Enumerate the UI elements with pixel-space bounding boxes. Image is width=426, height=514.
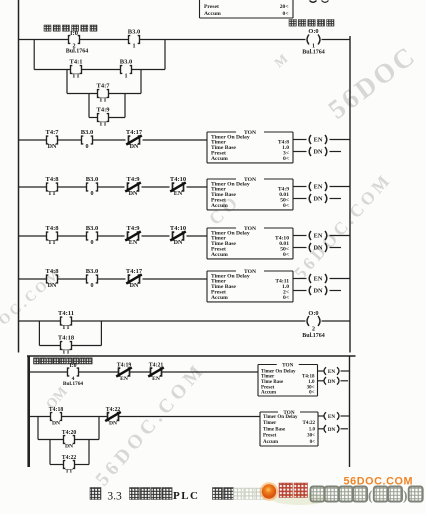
svg-text:Accum: Accum	[204, 11, 221, 17]
coil T4:11/DN	[293, 286, 341, 295]
label 由东向西方向传感器 (rung comment)	[34, 358, 93, 364]
timer block TON T4:11	[207, 269, 293, 302]
svg-text:EN: EN	[314, 233, 323, 240]
svg-text:DN: DN	[174, 240, 183, 246]
timer block TON T4:9	[207, 177, 293, 210]
contact T4:18/TT (XIC)	[58, 334, 75, 355]
contact T4:20/DN (XIC)	[62, 430, 77, 450]
svg-text:T4:22: T4:22	[62, 455, 77, 461]
svg-text:): )	[403, 488, 408, 503]
coil T4:8/EN	[293, 135, 350, 144]
svg-text:Bul.1764: Bul.1764	[66, 49, 89, 55]
svg-text:I:0: I:0	[70, 30, 78, 37]
pin label Bul.1764 for I:0	[66, 49, 89, 55]
svg-text:30<: 30<	[307, 434, 315, 439]
svg-text:EN: EN	[174, 191, 183, 197]
wire rung 4	[19, 235, 208, 237]
svg-text:Bul.1764: Bul.1764	[63, 381, 84, 387]
contact B3.0/0 (XIC)	[81, 129, 93, 150]
svg-text:T4:10: T4:10	[170, 225, 186, 232]
svg-text:B3.0: B3.0	[86, 268, 98, 275]
svg-text:B3.0: B3.0	[86, 225, 98, 232]
contact T4:21/EN (XIO)	[148, 362, 164, 382]
timer block TON T4:18	[258, 363, 318, 396]
wire parallel branch 2 (bottom rung 2)	[50, 440, 89, 465]
svg-text:0<: 0<	[309, 390, 315, 395]
svg-text:T4:20: T4:20	[62, 430, 77, 436]
svg-text:56DOC.COM: 56DOC.COM	[0, 265, 66, 351]
svg-text:Bul.1764: Bul.1764	[302, 50, 325, 56]
svg-text:0<: 0<	[310, 440, 316, 445]
svg-text:1.0: 1.0	[309, 428, 316, 433]
svg-text:Accum: Accum	[211, 203, 228, 209]
coil T4:18/DN	[318, 377, 349, 385]
svg-text:DN: DN	[313, 288, 323, 295]
svg-text:T4:8: T4:8	[46, 176, 60, 183]
contact I:0/4 (XIC) 传感器	[68, 363, 79, 382]
svg-text:EN: EN	[314, 137, 323, 144]
svg-text:DN: DN	[328, 379, 336, 385]
svg-text:Accum: Accum	[211, 156, 228, 162]
svg-text:TT: TT	[62, 325, 70, 331]
svg-text:0: 0	[90, 191, 93, 197]
svg-text:B3.0: B3.0	[86, 176, 98, 183]
contact T4:9/TT (XIC)	[97, 106, 111, 127]
svg-text:0: 0	[90, 283, 93, 289]
wire rung 2	[19, 139, 208, 141]
wire rung 6	[19, 320, 351, 322]
svg-text:DN: DN	[130, 144, 139, 150]
svg-text:EN: EN	[328, 414, 335, 420]
coil T4:10/DN	[293, 243, 341, 252]
contact T4:8/TT (XIC) rung4	[46, 225, 60, 246]
contact B3.0/0 (XIC) rung4	[86, 225, 98, 246]
svg-text:0<: 0<	[283, 252, 289, 258]
svg-text:EN: EN	[129, 240, 138, 246]
svg-text:DN: DN	[130, 283, 139, 289]
svg-text:T4:9: T4:9	[97, 106, 111, 113]
svg-text:0<: 0<	[283, 203, 289, 209]
contact T4:19/EN (XIO)	[116, 362, 132, 382]
svg-text:T4:17: T4:17	[126, 268, 143, 275]
wire parallel branch 1 (rung 1)	[34, 40, 165, 70]
contact T4:22/DN (XIO)	[105, 407, 121, 427]
coil T4:11/EN	[293, 274, 350, 283]
svg-text:T4:18: T4:18	[58, 334, 75, 341]
svg-text:Accum: Accum	[211, 252, 228, 258]
svg-text:TT: TT	[62, 350, 70, 356]
svg-text:Timer On Delay: Timer On Delay	[263, 415, 298, 420]
svg-text:DN: DN	[313, 245, 323, 252]
svg-text:0: 0	[90, 240, 93, 246]
contact B3.0/1 (XIC)	[128, 28, 140, 49]
svg-text:TT: TT	[72, 74, 80, 80]
section separator line	[27, 355, 356, 357]
svg-text:T4:7: T4:7	[46, 129, 60, 136]
svg-text:Time Base: Time Base	[263, 428, 286, 433]
wire parallel branch 2 (rung 1)	[67, 70, 141, 94]
wire parallel branch (rung 6)	[39, 321, 101, 346]
contact T4:9/EN (XIO)	[125, 225, 141, 246]
coil T4:9/DN	[293, 194, 341, 203]
svg-text:TT: TT	[48, 240, 56, 246]
coil T4:10/EN	[293, 231, 350, 240]
svg-text:DN: DN	[65, 444, 73, 450]
wire rung 5	[19, 278, 208, 280]
svg-text:20<: 20<	[280, 4, 289, 10]
svg-text:TT: TT	[65, 469, 73, 475]
contact T4:8/DN (XIC)	[46, 268, 60, 289]
contact T4:7/DN (XIC)	[46, 129, 60, 150]
svg-text:1.0: 1.0	[308, 380, 315, 385]
contact T4:9/DN (XIO)	[125, 176, 141, 197]
svg-text:T4:18: T4:18	[302, 375, 315, 380]
contact T4:7/TT (XIC)	[97, 82, 111, 103]
svg-text:Bul.1764: Bul.1764	[302, 333, 325, 339]
svg-text:T4:9: T4:9	[127, 176, 141, 183]
pin label Bul.1764 for I:0/4	[63, 381, 84, 387]
left power rail (bottom section)	[27, 356, 30, 467]
svg-text:I:0: I:0	[69, 363, 76, 369]
svg-text:M: M	[271, 51, 290, 70]
svg-text:0: 0	[85, 144, 88, 150]
svg-text:PLC: PLC	[173, 490, 200, 502]
svg-text:0<: 0<	[283, 156, 289, 162]
contact T4:22/TT (XIC)	[62, 455, 77, 475]
contact T4:1/TT (XIC)	[70, 58, 83, 79]
contact B3.0/0 (XIC) rung5	[86, 268, 98, 289]
svg-text:B3.0: B3.0	[128, 28, 140, 35]
coil T4:22/EN	[318, 412, 350, 420]
coil T4:22/DN	[318, 425, 348, 433]
svg-text:TT: TT	[48, 191, 56, 197]
coil T4:18/EN	[318, 367, 350, 375]
svg-text:TON: TON	[282, 363, 293, 369]
contact T4:8/TT (XIC)	[46, 176, 60, 197]
coil remnants (cut off at top edge)	[310, 1, 329, 3]
svg-text:T4:22: T4:22	[106, 407, 121, 413]
svg-text:T4:22: T4:22	[303, 421, 316, 426]
contact T4:17/DN (XIO)	[126, 129, 143, 150]
wire rung 1	[19, 39, 351, 41]
wire parallel branch 1 (bottom rung 2)	[38, 417, 99, 440]
svg-text:Accum: Accum	[261, 390, 277, 395]
svg-text:DN: DN	[328, 427, 336, 433]
partial timer block (cut off at top): Preset/Accum	[200, 0, 294, 18]
svg-text:Preset: Preset	[204, 4, 219, 10]
svg-text:DN: DN	[109, 421, 117, 427]
svg-text:1: 1	[124, 74, 127, 80]
left power rail (top section)	[18, 0, 20, 353]
svg-text:T4:10: T4:10	[170, 176, 186, 183]
svg-text:B3.0: B3.0	[81, 129, 93, 136]
svg-text:(: (	[368, 488, 373, 503]
wire bottom rung 2	[29, 416, 260, 418]
contact T4:10/EN (XIO)	[170, 176, 186, 197]
svg-text:T4:8: T4:8	[46, 268, 60, 275]
svg-text:Timer: Timer	[263, 421, 277, 426]
contact T4:10/DN (XIO)	[170, 225, 186, 246]
svg-text:DN: DN	[52, 421, 60, 427]
wire bottom rung 1	[29, 371, 258, 373]
svg-text:B3.0: B3.0	[120, 58, 132, 65]
wire parallel branch 3 (rung 1)	[89, 94, 125, 118]
svg-text:3.3: 3.3	[107, 491, 122, 503]
svg-text:T4:11: T4:11	[58, 310, 74, 317]
svg-text:Preset: Preset	[263, 434, 277, 439]
svg-text:TT: TT	[99, 122, 107, 128]
svg-text:EN: EN	[314, 184, 323, 191]
svg-text:EN: EN	[328, 369, 335, 375]
contact T4:17/DN (XIO) rung5	[126, 268, 143, 289]
svg-text:T4:8: T4:8	[46, 225, 60, 232]
svg-text:O:0: O:0	[308, 310, 318, 317]
timer block TON T4:8	[207, 130, 293, 163]
svg-text:DN: DN	[313, 149, 323, 156]
wire rung 3	[19, 186, 208, 188]
right power rail (bottom section)	[349, 356, 351, 467]
svg-text:DN: DN	[48, 144, 57, 150]
svg-text:Accum: Accum	[211, 295, 228, 301]
right power rail (top section)	[349, 36, 351, 353]
svg-text:DN: DN	[48, 283, 57, 289]
contact B3.0/0 (XIC)	[86, 176, 98, 197]
coil T4:8/DN	[293, 147, 341, 156]
svg-text:T4:19: T4:19	[117, 362, 132, 368]
contact B3.0/1 (XIC) branch	[120, 58, 132, 79]
svg-text:56DOC.COM: 56DOC.COM	[344, 476, 414, 488]
svg-text:Accum: Accum	[263, 440, 279, 445]
svg-text:Time Base: Time Base	[261, 380, 284, 385]
svg-text:T4:9: T4:9	[127, 225, 141, 232]
coil T4:9/EN	[293, 182, 350, 191]
svg-text:T4:17: T4:17	[126, 129, 143, 136]
svg-text:0<: 0<	[283, 295, 289, 301]
coil O:0/1 (OTE) 东西绿灯亮	[302, 28, 325, 56]
contact I:0/2 (XIC) 东西强通开关	[69, 30, 80, 50]
svg-text:DN: DN	[129, 191, 138, 197]
svg-text:DN: DN	[313, 196, 323, 203]
contact T4:11/TT (XIC)	[58, 310, 74, 331]
svg-text:T4:21: T4:21	[149, 362, 164, 368]
svg-text:1: 1	[132, 44, 135, 50]
svg-text:TT: TT	[99, 98, 107, 104]
svg-text:EN: EN	[120, 376, 128, 382]
svg-text:Timer On Delay: Timer On Delay	[261, 369, 296, 374]
svg-text:Timer: Timer	[261, 375, 275, 380]
svg-text:56DOC: 56DOC	[323, 39, 423, 124]
svg-text:O:0: O:0	[308, 28, 318, 35]
svg-text:EN: EN	[152, 376, 160, 382]
svg-text:EN: EN	[314, 276, 323, 283]
contact T4:18/DN (XIC)	[49, 407, 64, 427]
timer block TON T4:22	[260, 410, 318, 446]
svg-text:T4:7: T4:7	[97, 82, 111, 89]
label 东西绿灯亮 (output comment)	[289, 20, 334, 27]
coil O:0/2 (OTE)	[302, 310, 325, 339]
svg-text:2: 2	[312, 327, 315, 333]
label 东西强通开关 (rung 1 comment)	[44, 25, 97, 31]
svg-text:T4:18: T4:18	[49, 407, 64, 413]
timer block TON T4:10	[207, 226, 293, 259]
svg-text:0<: 0<	[283, 11, 289, 17]
svg-text:T4:1: T4:1	[70, 58, 83, 65]
